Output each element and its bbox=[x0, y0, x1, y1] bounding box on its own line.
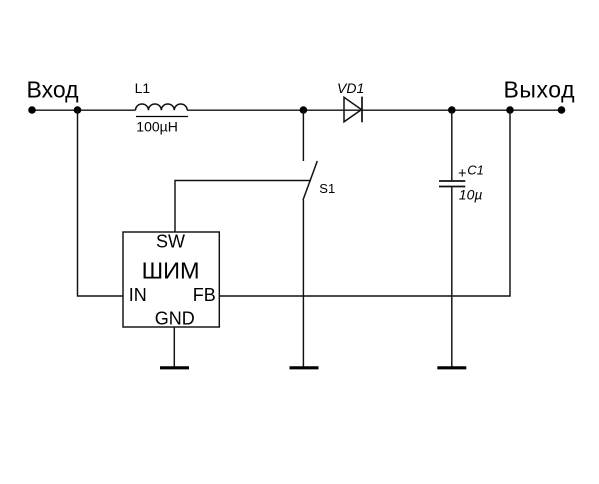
svg-text:S1: S1 bbox=[319, 181, 335, 196]
svg-text:Выход: Выход bbox=[504, 77, 576, 103]
diode VD1 bbox=[344, 97, 362, 122]
node feedback junction bbox=[506, 106, 514, 114]
svg-text:SW: SW bbox=[156, 232, 185, 252]
inductor L1 bbox=[136, 104, 188, 110]
svg-text:IN: IN bbox=[129, 285, 147, 305]
node switch junction bbox=[300, 106, 308, 114]
wire main top rail bbox=[32, 109, 562, 111]
svg-text:Вход: Вход bbox=[27, 77, 80, 103]
wire input branch to IN pin bbox=[78, 110, 124, 296]
op-amp U1 PWM controller box bbox=[123, 232, 219, 327]
node capacitor junction bbox=[448, 106, 456, 114]
wire GND pin stub bbox=[173, 327, 175, 367]
node input junction bbox=[74, 106, 82, 114]
svg-text:C1: C1 bbox=[467, 162, 484, 177]
node Вход terminal bbox=[28, 106, 36, 114]
svg-text:100µH: 100µH bbox=[136, 119, 178, 135]
svg-text:FB: FB bbox=[193, 285, 216, 305]
ground under switch bbox=[290, 366, 319, 369]
switch S1 bbox=[302, 110, 304, 161]
svg-text:GND: GND bbox=[155, 309, 195, 329]
capacitor C1 bbox=[451, 110, 453, 181]
svg-text:+: + bbox=[458, 166, 466, 182]
svg-text:L1: L1 bbox=[135, 80, 151, 96]
ground under PWM bbox=[160, 366, 189, 369]
wire FB pin to output bbox=[219, 110, 510, 296]
svg-text:10µ: 10µ bbox=[459, 187, 483, 203]
wire SW pin to switch bbox=[175, 181, 311, 233]
node Выход terminal bbox=[558, 106, 566, 114]
svg-text:VD1: VD1 bbox=[337, 80, 364, 96]
svg-text:ШИМ: ШИМ bbox=[142, 257, 200, 283]
ground under capacitor bbox=[437, 366, 466, 369]
